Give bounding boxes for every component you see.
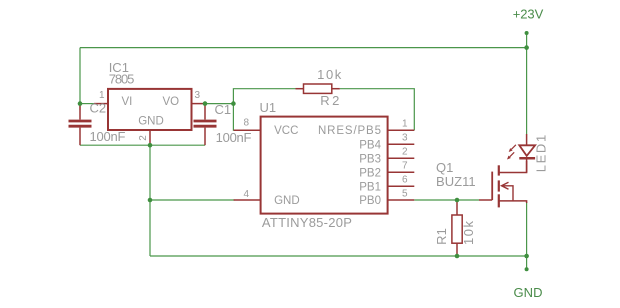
svg-text:8: 8 xyxy=(243,118,249,129)
svg-text:7: 7 xyxy=(402,160,408,171)
wire bottom rail xyxy=(150,255,527,257)
resistor R2 10k xyxy=(296,67,342,108)
svg-text:R1: R1 xyxy=(434,228,449,245)
node C2 / 7805 VI / +23V xyxy=(78,101,83,106)
svg-text:U1: U1 xyxy=(260,100,277,115)
channel segments xyxy=(498,165,500,207)
svg-text:C1: C1 xyxy=(215,102,232,117)
svg-text:PB2: PB2 xyxy=(359,167,381,179)
svg-text:2: 2 xyxy=(402,146,408,157)
pin 1 NRES/PB5 xyxy=(388,129,415,131)
node R1 bottom xyxy=(455,254,460,259)
pin 6 PB1 xyxy=(388,185,415,187)
wire 7805 pin3 to C1 and branch xyxy=(205,103,233,105)
svg-text:BUZ11: BUZ11 xyxy=(436,174,476,189)
capacitor C1 100nF xyxy=(194,102,252,145)
wire branch down to U1 pin8 xyxy=(233,104,236,131)
source xyxy=(499,201,527,203)
node 7805 GND xyxy=(148,143,153,148)
node C1 top xyxy=(203,101,208,106)
svg-text:VI: VI xyxy=(122,96,133,108)
svg-text:7805: 7805 xyxy=(109,72,135,87)
pin 3 PB4 xyxy=(388,143,415,145)
wire U1 pin5 to gate xyxy=(414,199,479,201)
svg-text:NRES/PB5: NRES/PB5 xyxy=(318,125,381,137)
svg-text:3: 3 xyxy=(195,90,201,101)
svg-text:2: 2 xyxy=(138,135,149,141)
svg-text:1: 1 xyxy=(99,90,105,101)
svg-text:GND: GND xyxy=(138,116,164,128)
svg-text:100nF: 100nF xyxy=(216,130,252,145)
svg-text:+23V: +23V xyxy=(513,7,544,22)
voltage regulator IC1 7805 xyxy=(94,60,206,145)
svg-text:VO: VO xyxy=(163,96,180,108)
node branch R2/pin8 xyxy=(231,101,236,106)
svg-text:PB0: PB0 xyxy=(359,195,381,207)
svg-text:6: 6 xyxy=(402,174,408,185)
svg-text:3: 3 xyxy=(402,132,408,143)
svg-text:C2: C2 xyxy=(90,101,107,116)
svg-text:10k: 10k xyxy=(461,221,476,246)
microcontroller U1 ATTINY85-20P xyxy=(234,100,415,230)
wire C2 top stub xyxy=(79,104,81,110)
pin 7 PB2 xyxy=(388,171,415,173)
drain xyxy=(499,161,527,173)
wire gnd vertical x150 xyxy=(149,145,151,256)
svg-text:ATTINY85-20P: ATTINY85-20P xyxy=(262,215,352,230)
wire U1 pin4 xyxy=(150,199,235,201)
svg-text:5: 5 xyxy=(402,188,408,199)
transistor Q1 BUZ11 n-channel mosfet xyxy=(436,160,527,208)
svg-text:GND: GND xyxy=(274,195,300,207)
wire top rail +23V net xyxy=(80,48,527,104)
+23V supply symbol xyxy=(513,7,544,48)
svg-text:PB1: PB1 xyxy=(359,181,381,193)
pin 4 GND xyxy=(234,199,261,201)
wire 7805 pin1 to junction xyxy=(80,103,96,105)
pin 2 PB3 xyxy=(388,157,415,159)
wire R2 right to U1 pin1 xyxy=(340,89,415,131)
svg-text:LED1: LED1 xyxy=(533,135,548,172)
svg-text:4: 4 xyxy=(243,189,249,200)
ground symbol GND xyxy=(514,256,543,300)
wire +23V drop to LED xyxy=(526,48,528,134)
gate pin xyxy=(479,199,492,201)
svg-text:VCC: VCC xyxy=(274,125,298,137)
gate bar xyxy=(491,172,493,200)
wire gnd horizontal under caps xyxy=(80,144,205,146)
svg-text:Q1: Q1 xyxy=(436,160,453,175)
LED1 xyxy=(507,134,548,173)
pin 8 VCC xyxy=(234,129,261,131)
svg-text:GND: GND xyxy=(514,285,543,300)
wire source down to gnd rail xyxy=(526,202,528,256)
node R1 top / gate xyxy=(455,198,460,203)
resistor R1 10k xyxy=(434,200,476,256)
node GND branch xyxy=(524,254,529,259)
svg-text:100nF: 100nF xyxy=(90,129,126,144)
body terminal with arrow xyxy=(502,186,514,201)
svg-text:10k: 10k xyxy=(317,67,342,82)
wire branch up to R2 xyxy=(233,89,295,104)
svg-text:1: 1 xyxy=(402,118,408,129)
light emission arrows xyxy=(507,145,516,160)
pin 5 PB0 xyxy=(388,199,415,201)
node +23V branch xyxy=(524,45,529,50)
capacitor C2 100nF xyxy=(69,101,126,146)
svg-text:PB3: PB3 xyxy=(359,153,381,165)
node U1 pin4 branch xyxy=(148,198,153,203)
svg-text:PB4: PB4 xyxy=(359,139,381,151)
